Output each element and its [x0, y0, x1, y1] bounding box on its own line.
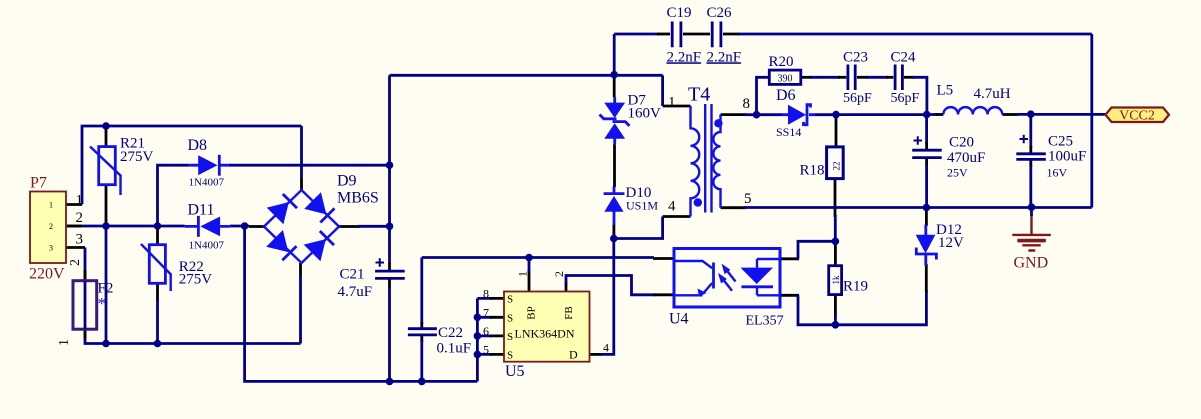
resistor R18	[827, 147, 844, 179]
svg-text:MB6S: MB6S	[337, 190, 379, 207]
bridge rectifier D9 (diamond edges)	[264, 190, 339, 263]
wire primary top rail y=75	[390, 74, 663, 77]
wire R21 column	[105, 126, 108, 147]
svg-text:P7: P7	[30, 175, 47, 192]
svg-text:1: 1	[57, 339, 72, 346]
svg-text:56pF: 56pF	[843, 91, 872, 106]
wire L5 to VCC2	[1002, 113, 1018, 116]
svg-text:D9: D9	[337, 173, 357, 190]
T4 secondary winding	[713, 115, 720, 208]
T4 polarity dot secondary	[714, 119, 722, 127]
svg-text:4.7uH: 4.7uH	[974, 86, 1011, 102]
bridge diode upper-left	[267, 193, 299, 225]
wire R19 leads	[834, 241, 837, 265]
node R19 / U4 emitter / D12 rail	[832, 321, 840, 329]
optocoupler U4	[674, 249, 780, 308]
wire T4 pin8 stub	[721, 113, 747, 116]
svg-text:C22: C22	[438, 325, 463, 341]
wire R22 column	[156, 226, 159, 245]
node top rail / R21	[102, 122, 110, 130]
svg-text:1: 1	[49, 201, 53, 210]
svg-text:100uF: 100uF	[1048, 149, 1086, 165]
node L5 out / C25 / VCC2	[1027, 110, 1035, 118]
wire bridge top vertex lead	[300, 126, 303, 178]
wire DC+ column x=389.5	[388, 75, 391, 264]
svg-text:5: 5	[744, 191, 752, 207]
wire C23 to C24	[857, 76, 868, 79]
T4 polarity dot primary	[694, 198, 702, 206]
node U5 source pins	[474, 314, 482, 322]
wire D8 output to node	[228, 164, 389, 167]
svg-text:C21: C21	[340, 267, 365, 283]
svg-text:2.2nF: 2.2nF	[707, 49, 742, 65]
svg-text:LNK364DN: LNK364DN	[515, 327, 575, 341]
svg-text:C25: C25	[1048, 133, 1073, 149]
svg-text:D6: D6	[776, 87, 796, 104]
node D6 out / R18	[832, 111, 840, 119]
IC U5 LNK364DN	[483, 271, 609, 362]
wire bias rail y=257.5	[422, 256, 654, 259]
wire feedback bottom rail to D12	[835, 290, 926, 325]
svg-text:US1M: US1M	[626, 199, 658, 213]
svg-text:0.1uF: 0.1uF	[437, 341, 472, 357]
svg-text:R19: R19	[843, 279, 868, 295]
svg-text:4: 4	[603, 341, 609, 355]
node gnd rail / C20 / D12	[923, 204, 931, 212]
svg-text:3: 3	[49, 244, 53, 253]
capacitor C23	[848, 65, 855, 91]
svg-text:56pF: 56pF	[891, 91, 920, 106]
U4 phototransistor	[674, 261, 712, 268]
svg-text:D11: D11	[188, 202, 215, 219]
wire C24 right leg down	[904, 76, 914, 79]
svg-text:1N4007: 1N4007	[189, 177, 225, 189]
bridge diode lower-left	[266, 230, 298, 262]
svg-text:2: 2	[49, 222, 53, 231]
wire C25 column	[1029, 114, 1032, 148]
U4 light arrows	[718, 264, 736, 291]
wire U5 pin2 FB route	[565, 282, 568, 292]
svg-text:FB: FB	[563, 306, 575, 319]
wire pin2 row D11 to bridge left vertex	[230, 225, 249, 228]
svg-text:C20: C20	[949, 135, 974, 151]
wire U4 collector elbow	[780, 257, 799, 260]
wire U4 emitter elbow	[780, 294, 799, 297]
wire P7 pin3 stub	[66, 246, 85, 249]
svg-text:8: 8	[743, 96, 751, 112]
svg-text:12V: 12V	[938, 235, 964, 251]
wire C20 column	[925, 115, 928, 145]
svg-text:VCC2: VCC2	[1119, 109, 1155, 124]
wire top-left rail from P7 pin1 to bridge top	[82, 126, 302, 205]
svg-text:1: 1	[668, 94, 676, 110]
wire T4 pin1 lead	[661, 75, 664, 106]
diode D11	[185, 216, 230, 237]
bridge diode upper-right	[304, 192, 336, 224]
svg-text:S: S	[507, 313, 513, 325]
wire pin2 row left	[66, 225, 185, 228]
wire bridge right vertex to node column	[339, 225, 360, 228]
wire secondary ground rail y=207.5	[721, 206, 747, 209]
svg-text:BP: BP	[526, 306, 538, 319]
varistor R22	[141, 244, 171, 291]
svg-text:3: 3	[76, 232, 84, 248]
wire C24 node to L5	[927, 113, 937, 116]
svg-text:R20: R20	[769, 54, 794, 70]
wire D10 lower lead	[613, 224, 616, 235]
transformer T4	[691, 104, 723, 217]
resistor R20	[769, 70, 801, 84]
node return rail / C21	[386, 378, 394, 386]
node C24 / C20 / L5	[923, 111, 931, 119]
svg-text:4: 4	[668, 199, 676, 215]
svg-text:2: 2	[76, 210, 84, 226]
wire F2 column	[84, 248, 87, 282]
node pin2 row / R22 / D8 riser	[154, 222, 162, 230]
resistor R19	[829, 266, 842, 295]
node pin8 / R20 / D6	[753, 111, 761, 119]
node primary top rail / snubber riser	[610, 71, 618, 79]
node pin2 row / R21	[102, 222, 110, 230]
svg-text:S: S	[507, 350, 513, 362]
node bottom rail / R22	[154, 340, 162, 348]
svg-text:275V: 275V	[179, 272, 213, 288]
wire pin8 node to D6	[757, 113, 783, 116]
power flag VCC2	[1106, 108, 1170, 124]
connector P7	[29, 175, 83, 283]
capacitor C19	[672, 22, 681, 48]
capacitor C26	[712, 22, 721, 48]
fuse F2	[57, 259, 113, 346]
svg-text:8: 8	[483, 287, 489, 301]
svg-text:S: S	[507, 294, 513, 306]
svg-text:4.7uF: 4.7uF	[338, 284, 373, 300]
wire D7 upper lead	[613, 75, 616, 97]
svg-text:EL357: EL357	[746, 314, 784, 329]
svg-text:22: 22	[832, 162, 842, 171]
node DC column / bridge right	[386, 223, 394, 231]
svg-text:C24: C24	[891, 49, 917, 65]
ground symbol GND	[1012, 207, 1051, 250]
U4 LED	[741, 268, 774, 284]
diode D8	[189, 155, 228, 176]
svg-text:1: 1	[516, 271, 530, 277]
svg-text:5: 5	[483, 343, 489, 357]
svg-text:2: 2	[552, 271, 566, 277]
svg-text:1k: 1k	[831, 275, 841, 285]
varistor R21	[90, 147, 121, 196]
svg-text:C26: C26	[707, 5, 733, 21]
svg-text:275V: 275V	[120, 149, 154, 165]
svg-text:U4: U4	[669, 311, 689, 328]
node DC column / D8 out	[386, 161, 394, 169]
node bias rail / U5 pin1	[525, 254, 533, 262]
node return rail / C22	[418, 378, 426, 386]
svg-text:2: 2	[68, 259, 83, 266]
svg-text:1N4007: 1N4007	[189, 240, 225, 252]
svg-text:R18: R18	[800, 163, 825, 179]
schottky diode D6	[782, 105, 816, 125]
wire R18 upper lead	[835, 115, 838, 147]
svg-text:1: 1	[76, 193, 84, 209]
wire D7-D10 link	[613, 144, 616, 187]
wire snubber top rail y=34	[614, 33, 659, 36]
svg-text:16V: 16V	[1047, 166, 1068, 180]
svg-text:*: *	[98, 294, 107, 313]
wire D12 top lead	[925, 208, 928, 227]
wire D6 to R18 node	[815, 113, 836, 116]
svg-text:D8: D8	[188, 137, 208, 154]
T4 core	[705, 104, 711, 213]
capacitor C24	[895, 65, 902, 91]
node bottom rail / R21	[102, 340, 110, 348]
diode D10	[604, 187, 625, 226]
svg-text:25V: 25V	[947, 166, 968, 180]
svg-text:220V: 220V	[29, 266, 65, 283]
svg-text:T4: T4	[688, 84, 710, 106]
node drain / D10 / T4 pin4	[610, 235, 618, 243]
capacitor C20 polarized	[912, 136, 942, 157]
T4 primary winding	[691, 106, 700, 217]
node R18 / R19 / U4 collector	[832, 238, 840, 246]
svg-text:D: D	[569, 348, 578, 362]
wire snubber riser x=614 top	[613, 34, 616, 75]
wire bridge bottom vertex lead	[299, 276, 302, 344]
wire R18 node to C24 node	[836, 113, 927, 116]
capacitor C22	[408, 329, 437, 335]
svg-text:160V: 160V	[628, 105, 662, 121]
svg-text:GND: GND	[1014, 255, 1049, 272]
svg-text:7: 7	[483, 305, 489, 319]
wire U5 pin1 stub	[528, 270, 531, 292]
wire U5 drain pin riser	[590, 353, 603, 356]
wire R20 to C23	[801, 76, 812, 79]
svg-text:S: S	[507, 331, 513, 343]
capacitor C21 polarized	[375, 258, 405, 278]
wire primary return rail y=381.4	[245, 226, 478, 381]
svg-text:L5: L5	[937, 82, 954, 98]
svg-text:U5: U5	[505, 363, 525, 380]
svg-text:2.2nF: 2.2nF	[667, 49, 702, 65]
zener diode D12	[916, 225, 937, 266]
wire R18 lower lead to R19 node	[834, 179, 837, 217]
svg-text:C23: C23	[843, 49, 868, 65]
inductor L5	[943, 107, 1002, 114]
node pin2 row / return riser	[241, 222, 249, 230]
svg-text:SS14: SS14	[776, 125, 801, 139]
bridge diode lower-right	[304, 230, 336, 262]
wire U5 source pins common	[477, 298, 492, 354]
capacitor C25 polarized	[1016, 135, 1046, 160]
wire R20 left leg	[757, 77, 770, 114]
node gnd rail / C25 / GND	[1028, 203, 1036, 211]
TVS diode D7	[600, 97, 630, 145]
svg-text:6: 6	[483, 324, 489, 338]
wire drain node staircase to T4 pin4	[614, 217, 663, 239]
wire C22 column	[420, 258, 423, 325]
svg-text:470uF: 470uF	[947, 150, 985, 166]
svg-text:C19: C19	[667, 5, 692, 21]
svg-text:390: 390	[778, 73, 793, 84]
wire D8 branch riser	[158, 165, 190, 226]
wire right column x=1092	[1090, 34, 1093, 208]
